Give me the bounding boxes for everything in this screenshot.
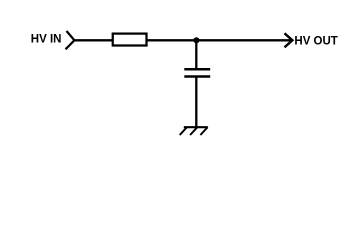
port chevron HV IN <box>66 31 75 49</box>
net label HV OUT <box>294 36 337 48</box>
capacitor <box>184 69 210 76</box>
arrowhead HV OUT <box>285 33 293 47</box>
resistor <box>113 34 147 46</box>
wire from capacitor down to ground <box>195 77 197 128</box>
junction node <box>193 37 199 43</box>
wire from junction down to capacitor <box>195 40 197 69</box>
svg-text:HV IN: HV IN <box>31 34 62 46</box>
net label HV IN <box>31 34 62 46</box>
svg-text:HV OUT: HV OUT <box>294 36 337 48</box>
ground <box>180 127 208 135</box>
wire from HV IN port to resistor <box>74 39 112 41</box>
wire from resistor to HV OUT arrow <box>147 39 292 41</box>
